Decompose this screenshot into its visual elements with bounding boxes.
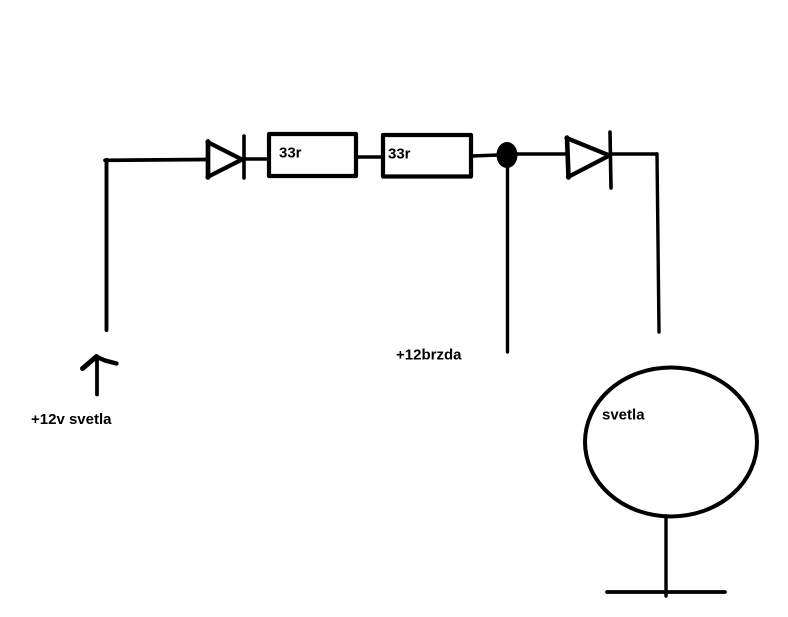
diode D1 cathode bar — [242, 136, 246, 178]
resistor R2 box — [383, 135, 471, 177]
wire: D1 cathode to resistor R1 — [245, 157, 269, 160]
lamp L1 (svetla bulb circle) — [585, 368, 757, 517]
wire: junction to diode D2 — [516, 152, 567, 155]
ground symbol — [607, 590, 725, 594]
wire: D2 cathode to right corner — [612, 152, 657, 155]
arrow: +12v svetla input arrow — [83, 357, 117, 395]
wire: top horizontal from corner to diode D1 anode — [105, 158, 207, 163]
wire: R1 to R2 — [356, 155, 383, 158]
resistor R1 box — [269, 134, 356, 176]
svg-text:+12brzda: +12brzda — [396, 347, 462, 364]
wire: lamp stem to ground — [664, 516, 667, 596]
wire: right vertical drop to lamp — [657, 154, 659, 332]
svg-text:svetla: svetla — [602, 407, 645, 424]
node junction dot — [497, 142, 518, 168]
wire: left vertical from top corner down — [105, 160, 109, 330]
wire: middle vertical +12brzda drop — [506, 165, 509, 352]
diode D2 (triangle) — [567, 138, 610, 178]
diode D2 cathode bar — [610, 132, 611, 188]
svg-text:33r: 33r — [388, 146, 411, 163]
wire: R2 to junction node — [472, 155, 498, 156]
svg-text:+12v svetla: +12v svetla — [31, 411, 112, 428]
svg-text:33r: 33r — [279, 145, 302, 162]
diode D1 (triangle) — [208, 142, 243, 178]
